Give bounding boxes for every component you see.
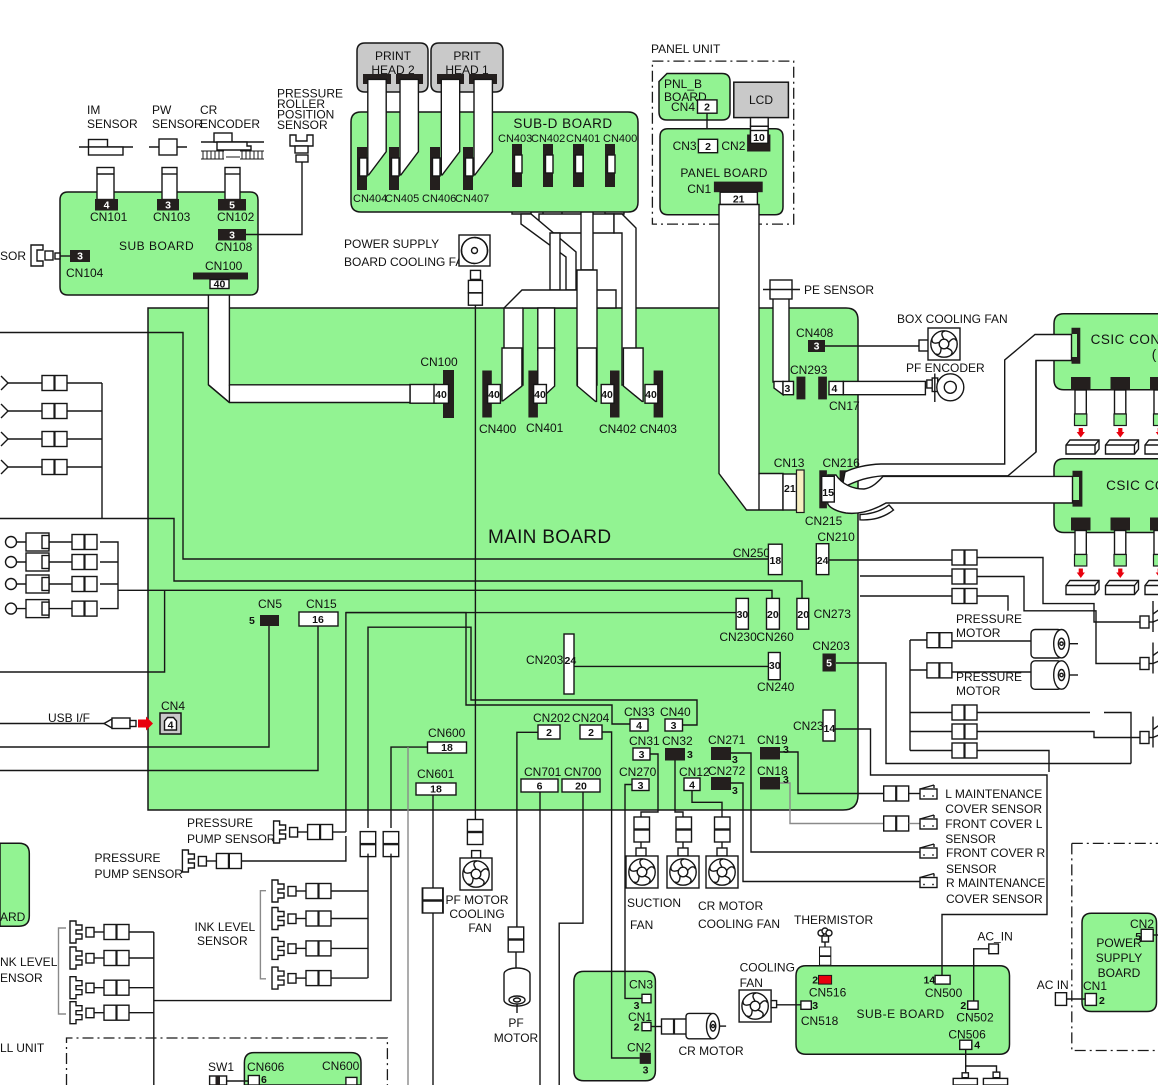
svg-text:CN202: CN202	[533, 711, 571, 725]
wire CN240 run	[574, 665, 768, 667]
svg-text:MOTOR: MOTOR	[494, 1031, 539, 1045]
svg-text:FRONT COVER L: FRONT COVER L	[945, 817, 1042, 831]
svg-text:CN701: CN701	[524, 765, 562, 779]
svg-text:18: 18	[430, 784, 442, 796]
ink right row 2	[272, 908, 368, 930]
vconn pf fan line	[467, 820, 483, 845]
connector CN203 black (5)	[812, 639, 850, 672]
vconn CN601 line	[423, 888, 443, 913]
svg-text:CR MOTOR: CR MOTOR	[679, 1044, 744, 1058]
svg-text:CN260: CN260	[756, 630, 794, 644]
svg-text:PF ENCODER: PF ENCODER	[906, 361, 985, 375]
svg-text:24: 24	[817, 555, 829, 567]
wire pressure roller sensor to CN108	[246, 162, 302, 235]
svg-text:3: 3	[785, 383, 791, 395]
svg-text:CN13: CN13	[774, 456, 805, 470]
csic board 2 left connector	[1073, 471, 1083, 507]
svg-text:3: 3	[732, 785, 738, 797]
pressure pump sensor 2	[95, 836, 346, 881]
pnl_b board	[659, 74, 730, 121]
connector CN40 (3)	[660, 705, 691, 732]
connector CN402 sub-d	[531, 133, 565, 187]
svg-text:CN1: CN1	[1083, 979, 1107, 993]
svg-text:CN40: CN40	[660, 705, 691, 719]
wire conn to motor1	[952, 640, 1031, 642]
wire motor bus	[910, 640, 952, 751]
csic stub board1 col1	[1066, 377, 1099, 454]
svg-text:21: 21	[733, 194, 745, 206]
bottom center board	[574, 971, 656, 1080]
top dconn group 1	[952, 550, 977, 565]
connector CN600 (18)	[428, 726, 467, 754]
svg-text:CN1: CN1	[687, 182, 711, 196]
svg-text:10: 10	[753, 132, 765, 144]
svg-text:LL UNIT: LL UNIT	[0, 1041, 45, 1055]
connector CN5 (5)	[249, 597, 282, 627]
svg-text:3: 3	[814, 341, 820, 353]
svg-text:CN2: CN2	[721, 139, 745, 153]
svg-text:THERMISTOR: THERMISTOR	[794, 913, 873, 927]
csic board 1	[1054, 314, 1158, 390]
wire CN700 drop	[559, 792, 583, 1085]
microswitch R maintenance	[920, 874, 1045, 907]
wire CN408 to box cooling fan	[825, 345, 919, 347]
connector CN210 (24)	[816, 530, 855, 575]
connector CN404	[353, 147, 387, 205]
pressure motor 2	[1031, 661, 1078, 690]
connector CN19 black (3)	[757, 733, 789, 760]
wire y596 run	[860, 595, 952, 597]
top-left sensor arrow 1	[1, 376, 8, 390]
ink level sensor left group	[0, 928, 66, 1014]
connector CN270 (3)	[619, 765, 657, 792]
svg-text:CN31: CN31	[629, 734, 660, 748]
svg-text:20: 20	[767, 609, 779, 621]
circle sensor 1	[6, 533, 50, 551]
svg-text:2: 2	[588, 727, 594, 739]
power supply unit dash enclosure	[1072, 843, 1158, 1050]
pressure motor 1 label	[956, 612, 1022, 640]
svg-text:6: 6	[261, 1074, 267, 1085]
connector CN101 (4)	[90, 199, 128, 224]
svg-text:MAIN BOARD: MAIN BOARD	[488, 527, 611, 548]
wire CN601 drop	[432, 794, 434, 888]
suction fan	[626, 817, 681, 932]
connector CN204 (2)	[572, 711, 610, 739]
ribbon into CN401	[538, 348, 555, 401]
ribbon CN100 channel from sub board	[208, 289, 410, 403]
svg-text:CN100: CN100	[420, 355, 458, 369]
svg-text:CN273: CN273	[814, 607, 852, 621]
svg-text:COOLING: COOLING	[740, 960, 795, 974]
cable PE sensor to CN293	[773, 298, 789, 395]
cable CN215 to csic board 2	[822, 475, 1073, 520]
svg-text:SW1: SW1	[208, 1060, 234, 1074]
connector CN250 (18)	[733, 544, 782, 574]
connector panel CN1 (21)	[714, 182, 763, 206]
connector CN108 (3)	[215, 229, 253, 254]
svg-text:40: 40	[534, 389, 546, 401]
svg-text:IM: IM	[87, 103, 100, 117]
top-left sensor arrow 4	[1, 460, 8, 474]
connector CN401 sub-d	[566, 133, 600, 187]
connector ps CN2 (5)	[1130, 917, 1158, 943]
connector CN405	[385, 147, 419, 205]
ink right row 1	[272, 880, 368, 902]
pe sensor	[763, 280, 874, 299]
connector CN500 (14)	[924, 974, 963, 1000]
PF encoder	[906, 361, 985, 402]
ink right row 3	[272, 937, 368, 959]
connector CN17 (4)	[818, 377, 860, 413]
top-left dconn 3	[42, 432, 67, 447]
circle dconn 1	[72, 535, 97, 550]
svg-text:3: 3	[643, 1064, 649, 1076]
wire CN23 to SUB-E CN500	[835, 729, 1047, 965]
svg-text:CN506: CN506	[948, 1027, 986, 1041]
lower dconn group 2	[952, 724, 977, 739]
top-left dconn 2	[42, 404, 67, 419]
wire CN12 to fan3	[692, 790, 722, 817]
svg-text:PW: PW	[152, 103, 172, 117]
svg-text:CN402: CN402	[531, 133, 565, 145]
svg-text:CN404: CN404	[353, 193, 387, 205]
ribbon head2 to CN404	[368, 79, 386, 174]
microswitch L maintenance	[909, 785, 1043, 816]
svg-text:CN700: CN700	[564, 765, 602, 779]
svg-text:PUMP SENSOR: PUMP SENSOR	[187, 832, 276, 846]
svg-text:CN500: CN500	[925, 986, 963, 1000]
svg-text:2: 2	[1099, 995, 1105, 1007]
svg-text:SUCTION: SUCTION	[627, 896, 681, 910]
connector CN18 black (3)	[757, 764, 789, 790]
svg-text:CN230: CN230	[719, 630, 757, 644]
sub-d board	[351, 112, 638, 212]
connector CN701 (6)	[521, 765, 562, 793]
bottom-left circle sensor group wires	[17, 542, 118, 609]
wire CN260 run	[118, 590, 772, 598]
microswitch front cover R	[920, 844, 1045, 876]
svg-text:CN601: CN601	[417, 767, 455, 781]
connector CN1 bottom board	[634, 1022, 651, 1034]
svg-text:CN108: CN108	[215, 240, 253, 254]
svg-text:MOTOR: MOTOR	[956, 684, 1001, 698]
PW sensor	[149, 103, 203, 155]
svg-text:SENSOR: SENSOR	[87, 117, 138, 131]
svg-text:CN104: CN104	[66, 266, 104, 280]
svg-text:SENSOR: SENSOR	[152, 117, 203, 131]
top-left sensor group wires	[8, 383, 102, 519]
svg-text:ENSOR: ENSOR	[0, 971, 43, 985]
pressure motor 2 connector	[927, 663, 952, 678]
microswitch front cover L	[909, 815, 1043, 846]
svg-text:CN293: CN293	[790, 363, 828, 377]
svg-text:PRESSURE: PRESSURE	[956, 612, 1022, 626]
circle sensor 4	[6, 600, 50, 618]
svg-text:18: 18	[770, 555, 782, 567]
svg-text:3: 3	[634, 1000, 640, 1012]
svg-text:CN3: CN3	[629, 978, 653, 992]
wire CN701 drop	[539, 792, 541, 1085]
connector CN31 (3)	[629, 734, 660, 761]
ribbon head1 to CN407	[474, 79, 492, 174]
svg-text:4: 4	[974, 1040, 980, 1052]
connector CN271 black (3)	[708, 733, 746, 766]
svg-text:30: 30	[737, 609, 749, 621]
svg-text:PE SENSOR: PE SENSOR	[804, 283, 874, 297]
board fragment ARD	[0, 843, 29, 926]
svg-text:6: 6	[537, 781, 543, 793]
svg-text:40: 40	[435, 389, 447, 401]
svg-text:AC_IN: AC_IN	[977, 930, 1012, 944]
svg-text:(: (	[1152, 347, 1157, 362]
svg-text:CN12: CN12	[679, 765, 710, 779]
svg-text:5: 5	[249, 615, 255, 627]
power supply board	[1082, 913, 1157, 1011]
svg-text:2: 2	[704, 102, 710, 114]
ribbon into CN402	[577, 348, 596, 401]
svg-text:5: 5	[826, 658, 832, 670]
svg-text:CR: CR	[200, 103, 218, 117]
svg-text:20: 20	[797, 609, 809, 621]
svg-text:20: 20	[575, 781, 587, 793]
valve symbol 2	[1140, 643, 1158, 674]
connector ps CN1 (2)	[1083, 979, 1107, 1007]
svg-text:SUPPLY: SUPPLY	[1096, 951, 1142, 965]
wire CN19 to L maintenance sensor	[780, 752, 884, 794]
svg-text:24: 24	[565, 655, 577, 667]
main board U2	[148, 308, 858, 810]
wire CN230 run	[346, 612, 736, 614]
svg-text:CN15: CN15	[306, 597, 337, 611]
svg-text:40: 40	[214, 279, 226, 291]
svg-text:2: 2	[634, 1022, 640, 1034]
circle sensor 3	[6, 575, 50, 593]
connector CN32 black (3)	[662, 734, 693, 761]
pf motor cooling fan	[445, 851, 508, 935]
svg-text:ARD: ARD	[0, 910, 26, 924]
svg-text:CN250: CN250	[733, 546, 771, 560]
svg-text:3: 3	[77, 251, 83, 263]
wire CN202 to PF motor	[517, 732, 538, 927]
svg-text:SENSOR: SENSOR	[945, 832, 996, 846]
svg-text:FAN: FAN	[630, 918, 653, 932]
svg-text:CN271: CN271	[708, 733, 746, 747]
wire CN210 run right	[829, 559, 952, 561]
svg-text:2: 2	[546, 727, 552, 739]
connector CN606 (6)	[248, 1074, 267, 1085]
connector CN100 (40)	[410, 355, 458, 418]
connector CN240 (30)	[757, 653, 795, 695]
box cooling fan	[897, 312, 1008, 360]
svg-text:CN215: CN215	[805, 514, 843, 528]
connector CN403 sub-d	[498, 133, 532, 187]
svg-text:CN502: CN502	[956, 1010, 994, 1024]
svg-text:21: 21	[784, 483, 796, 495]
svg-text:INK LEVEL: INK LEVEL	[195, 920, 256, 934]
svg-text:CN400: CN400	[479, 422, 517, 436]
svg-text:CN240: CN240	[757, 680, 795, 694]
svg-text:PUMP SENSOR: PUMP SENSOR	[95, 867, 184, 881]
connector CN518 (3)	[801, 1000, 839, 1028]
svg-text:CN101: CN101	[90, 210, 128, 224]
connector CN601 (18)	[416, 767, 456, 796]
svg-text:FAN: FAN	[740, 976, 763, 990]
connector panel CN4 (2)	[698, 100, 718, 114]
svg-text:40: 40	[645, 389, 657, 401]
svg-text:POWER SUPPLY: POWER SUPPLY	[344, 237, 439, 251]
circle dconn 4	[72, 601, 97, 616]
sub board	[60, 192, 258, 295]
panel board	[660, 129, 783, 215]
svg-text:ENCODER: ENCODER	[200, 117, 260, 131]
pressure motor 2 label	[956, 670, 1022, 698]
top dconn group 2	[952, 569, 977, 584]
svg-text:CN3: CN3	[673, 139, 697, 153]
left edge sensor (cut)	[0, 245, 60, 266]
svg-text:L MAINTENANCE: L MAINTENANCE	[945, 787, 1042, 801]
connector CN408 (3)	[796, 326, 834, 353]
wire CN203-5 to SUB-E CN500 path A	[836, 663, 1131, 764]
svg-text:CN32: CN32	[662, 734, 693, 748]
wire CN506 down	[966, 1049, 997, 1072]
connector CN403 (40)	[640, 371, 678, 437]
connector CN202 (2)	[533, 711, 571, 739]
valve symbol 3	[1140, 717, 1158, 748]
svg-text:CN402: CN402	[599, 422, 637, 436]
svg-text:3: 3	[638, 780, 644, 792]
svg-text:CN203: CN203	[812, 639, 850, 653]
connector CN2 bottom board	[640, 1053, 651, 1077]
wire inkR-bus to CN40	[368, 627, 697, 828]
svg-text:CN100: CN100	[205, 259, 243, 273]
svg-text:CSIC CONT: CSIC CONT	[1091, 332, 1158, 347]
wire bus2 lower	[154, 854, 391, 1001]
ac_in sub-e	[977, 930, 1012, 954]
lower dconn group 1	[952, 705, 977, 720]
svg-text:CN403: CN403	[640, 422, 678, 436]
svg-text:PANEL UNIT: PANEL UNIT	[651, 42, 721, 56]
svg-text:PRESSURE: PRESSURE	[187, 816, 253, 830]
connector CN400 (40)	[479, 371, 517, 437]
wire CN32 to fan2	[675, 761, 683, 818]
wire CN272 to R maintenance sensor	[731, 783, 920, 882]
connector CN506 (4)	[948, 1027, 986, 1051]
wire dconn3 join	[977, 596, 1008, 611]
svg-text:COOLING FAN: COOLING FAN	[698, 917, 780, 931]
CR motor	[679, 1013, 744, 1058]
top-left dconn 4	[42, 460, 67, 475]
connector CN12 (4)	[679, 765, 710, 792]
svg-text:14: 14	[824, 723, 836, 735]
cell 40 CN403	[645, 385, 658, 404]
svg-text:BOARD COOLING FAN: BOARD COOLING FAN	[344, 255, 472, 269]
svg-text:SUB-E BOARD: SUB-E BOARD	[857, 1007, 945, 1021]
IM sensor	[79, 103, 138, 155]
wire CN270 to CN3 lower	[625, 971, 642, 998]
ribbon panel CN1 to CN13	[719, 205, 783, 511]
connector CN400 sub-d	[603, 133, 637, 187]
wire CN600 gray drop	[407, 747, 409, 1085]
svg-text:2: 2	[705, 141, 711, 153]
top-left dconn 1	[42, 376, 67, 391]
ink left row 2	[70, 947, 154, 969]
wire lower dconn1 run	[977, 713, 1131, 764]
svg-text:CN400: CN400	[603, 133, 637, 145]
svg-text:16: 16	[312, 614, 324, 626]
switch SW1	[208, 1060, 234, 1085]
svg-text:CN1: CN1	[628, 1010, 652, 1024]
svg-text:4: 4	[636, 720, 642, 732]
connector CN260 (20)	[756, 598, 794, 644]
ink left row 4	[70, 1002, 154, 1024]
svg-text:SUB-D BOARD: SUB-D BOARD	[513, 116, 612, 131]
fan power supply cooling	[459, 235, 490, 266]
ink right row 4	[272, 967, 368, 989]
svg-text:PNL_B: PNL_B	[664, 77, 702, 91]
svg-text:3: 3	[639, 749, 645, 761]
board SW1/CN606	[244, 1053, 361, 1085]
valve symbol 1	[1140, 601, 1158, 632]
svg-text:CN4: CN4	[671, 100, 695, 114]
fuse box 1	[953, 1073, 977, 1085]
csic stub board1 col2	[1106, 377, 1139, 454]
connector CN15 (16)	[299, 597, 338, 626]
csic stub board2 col2	[1106, 518, 1139, 595]
svg-text:CSIC CO: CSIC CO	[1106, 478, 1158, 493]
svg-text:4: 4	[689, 780, 695, 792]
pressure roller position sensor	[277, 87, 343, 163]
cr motor cooling fan 1	[667, 817, 699, 888]
wire lower dconn3 run	[977, 751, 1049, 773]
wire conn to motor2	[952, 671, 1031, 673]
connector CN102 (5)	[217, 199, 255, 224]
print head 1	[431, 43, 503, 92]
wire pump-bus to CN33	[346, 613, 630, 832]
svg-text:CN406: CN406	[422, 193, 456, 205]
cable CR encoder to CN102	[225, 168, 240, 200]
csic board 2	[1054, 459, 1158, 533]
dash-dot enclosure bottom	[67, 1038, 388, 1085]
svg-text:PRESSURE: PRESSURE	[956, 670, 1022, 684]
connector panel CN2 (10)	[747, 131, 770, 152]
svg-text:3: 3	[687, 749, 693, 761]
wire CN273 run	[0, 519, 802, 599]
top dconn group 3	[952, 589, 977, 604]
svg-text:14: 14	[924, 974, 936, 986]
wire lower dconn2 run	[977, 732, 1140, 738]
dconn CR motor	[662, 1019, 687, 1034]
wire ink left bus	[153, 932, 155, 1085]
ink level sensor right group	[195, 891, 267, 979]
connector CN402 (40)	[599, 371, 637, 437]
wire left sensor to CN104	[60, 255, 70, 257]
svg-text:CN606: CN606	[247, 1060, 285, 1074]
connector CN516 (2) red	[809, 975, 847, 1000]
ribbon head1 to CN406	[441, 79, 459, 174]
svg-text:CN2: CN2	[627, 1041, 651, 1055]
wire CN250 run	[0, 333, 768, 560]
svg-text:3: 3	[783, 744, 789, 756]
pf motor	[494, 968, 539, 1045]
power supply board cooling fan label	[344, 237, 472, 269]
wire CN4 to CN3	[706, 113, 708, 139]
connector CN33 (4)	[624, 705, 655, 732]
cr motor cooling fan 2	[698, 817, 780, 931]
wire dconn2 to valve2	[977, 577, 1140, 664]
csic stub board2 col1	[1066, 518, 1099, 595]
svg-text:PANEL BOARD: PANEL BOARD	[680, 166, 767, 180]
